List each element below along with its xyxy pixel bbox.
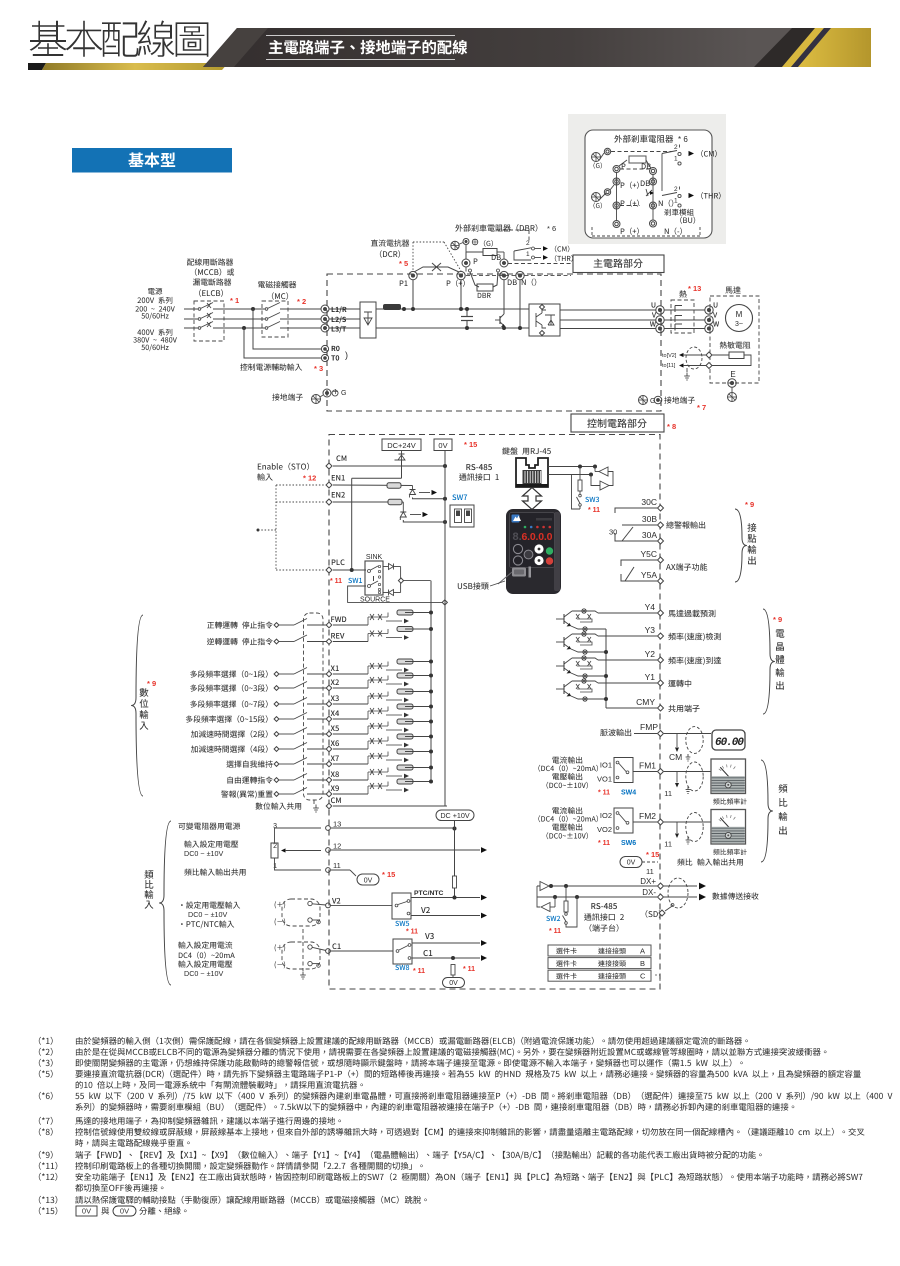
svg-text:12: 12 (333, 842, 341, 851)
svg-text:Y5A: Y5A (641, 570, 657, 580)
svg-text:* 11: * 11 (463, 966, 475, 973)
svg-text:* 13: * 13 (688, 284, 701, 293)
svg-text:* 15: * 15 (382, 870, 395, 879)
svg-text:M: M (736, 310, 743, 319)
svg-text:B: B (640, 959, 645, 968)
svg-text:* 9: * 9 (745, 500, 754, 509)
svg-text:IO1: IO1 (600, 761, 612, 770)
svg-text:* 15: * 15 (646, 850, 659, 859)
svg-text:* 3: * 3 (314, 364, 323, 373)
svg-text:0V: 0V (438, 441, 447, 450)
svg-text:2: 2 (674, 186, 678, 193)
svg-text:DC0 ~ ±10V: DC0 ~ ±10V (188, 910, 228, 919)
svg-text:* 12: * 12 (303, 474, 316, 483)
svg-text:0V: 0V (627, 860, 636, 867)
svg-text:* 5: * 5 (399, 259, 408, 268)
svg-text:DC +10V: DC +10V (440, 811, 470, 820)
svg-text:11: 11 (664, 840, 672, 849)
svg-text:30A: 30A (642, 530, 657, 540)
svg-text:): ) (345, 350, 348, 360)
svg-text:* 11: * 11 (406, 929, 418, 936)
svg-text:VO1: VO1 (597, 775, 612, 784)
svg-text:* 15: * 15 (464, 440, 477, 449)
svg-text:IO2: IO2 (600, 811, 612, 820)
svg-text:30B: 30B (642, 514, 657, 524)
svg-text:* 8: * 8 (667, 422, 676, 431)
svg-text:* 1: * 1 (230, 296, 239, 305)
svg-text:* 2: * 2 (297, 297, 306, 306)
svg-text:PTC/NTC: PTC/NTC (414, 890, 444, 897)
svg-text:* 7: * 7 (697, 403, 706, 412)
svg-text:Y4: Y4 (645, 602, 656, 612)
svg-text:CM: CM (669, 752, 682, 762)
svg-text:* 11: * 11 (588, 507, 600, 514)
svg-text:2: 2 (526, 240, 530, 247)
svg-text:DC0 ~ ±10V: DC0 ~ ±10V (184, 969, 224, 978)
svg-text:2: 2 (273, 843, 277, 850)
svg-text:CMY: CMY (636, 697, 655, 707)
svg-text:SINK: SINK (366, 554, 383, 561)
svg-text:2: 2 (674, 144, 678, 151)
svg-text:8.: 8. (513, 531, 522, 543)
svg-text:1: 1 (674, 198, 678, 205)
svg-text:* 6: * 6 (678, 135, 688, 144)
svg-text:A: A (640, 947, 645, 956)
svg-text:G: G (341, 390, 346, 397)
svg-text:* 9: * 9 (147, 679, 156, 688)
svg-text:30: 30 (609, 528, 617, 537)
svg-text:11: 11 (646, 867, 654, 876)
svg-text:0V: 0V (364, 878, 373, 885)
svg-text:0V: 0V (449, 980, 458, 987)
svg-text:SW6: SW6 (621, 840, 636, 847)
svg-text:* 11: * 11 (598, 790, 610, 797)
svg-text:SW4: SW4 (621, 790, 636, 797)
svg-text:FM1: FM1 (639, 761, 656, 771)
svg-text:* 11: * 11 (549, 928, 561, 935)
svg-text:1: 1 (273, 863, 277, 870)
svg-text:* 11: * 11 (330, 578, 342, 585)
svg-text:30C: 30C (641, 497, 657, 507)
svg-text:DC+24V: DC+24V (387, 441, 416, 450)
svg-text:to[V2]: to[V2] (662, 353, 677, 359)
svg-text:3: 3 (273, 823, 277, 830)
svg-text:Y3: Y3 (645, 625, 656, 635)
svg-text:6.0.0.0: 6.0.0.0 (522, 531, 553, 543)
svg-text:1: 1 (674, 156, 678, 163)
svg-text:Y5C: Y5C (640, 549, 657, 559)
svg-text:Y2: Y2 (645, 649, 656, 659)
svg-text:to[11]: to[11] (662, 363, 676, 369)
svg-text:1: 1 (526, 251, 530, 258)
svg-text:3~: 3~ (735, 321, 743, 328)
svg-text:DX+: DX+ (640, 877, 656, 886)
svg-text:DX-: DX- (642, 888, 656, 897)
svg-text:FM2: FM2 (639, 811, 656, 821)
svg-text:0V: 0V (82, 1207, 91, 1216)
svg-text:13: 13 (333, 820, 341, 829)
svg-text:* 6: * 6 (547, 224, 556, 233)
svg-text:60.00: 60.00 (715, 737, 744, 749)
svg-text:* 11: * 11 (413, 968, 425, 975)
svg-text:E: E (730, 370, 735, 379)
svg-text:0V: 0V (120, 1207, 129, 1216)
svg-text:Y1: Y1 (645, 672, 656, 682)
svg-text:11: 11 (333, 861, 341, 870)
svg-text:DC0 ~ ±10V: DC0 ~ ±10V (184, 849, 224, 858)
svg-text:VO2: VO2 (597, 825, 612, 834)
svg-text:11: 11 (664, 789, 672, 798)
svg-text:* 9: * 9 (773, 615, 782, 624)
svg-text:* 11: * 11 (598, 840, 610, 847)
svg-text:C: C (640, 972, 646, 981)
svg-text:FMP: FMP (640, 722, 658, 732)
